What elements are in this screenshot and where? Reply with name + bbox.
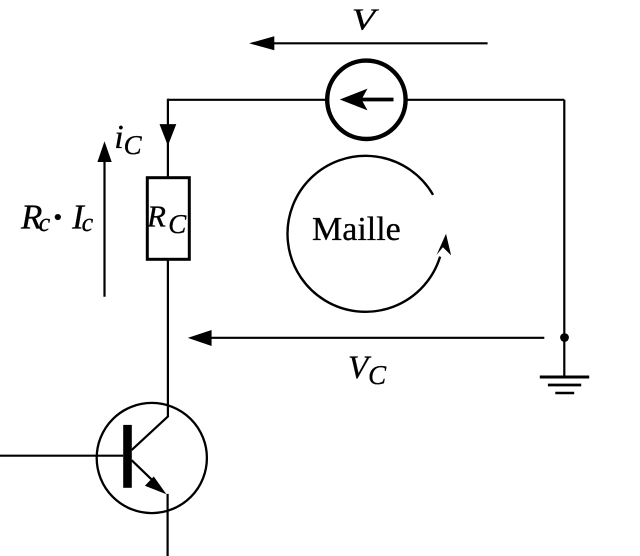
arrow V_C: [188, 330, 545, 346]
svg-text:Rc·Ic: Rc·Ic: [20, 189, 94, 245]
wire top horizontal: [168, 99, 564, 101]
arrow i_C (up arrow left of resistor): [97, 141, 111, 296]
collector diagonal: [132, 416, 169, 450]
svg-text:Maille: Maille: [312, 211, 401, 248]
ground: [540, 377, 589, 393]
base wire: [0, 455, 123, 457]
Maille loop arrow: [288, 156, 452, 312]
transistor body circle: [97, 403, 207, 513]
base bar: [123, 425, 132, 488]
resistor R_C: [146, 178, 189, 260]
wire left vertical (top, into resistor): [167, 99, 169, 178]
emitter wire: [167, 494, 169, 556]
svg-text:V: V: [352, 2, 379, 37]
current source (circle with left arrow): [327, 61, 405, 139]
emitter diagonal with arrowhead: [132, 460, 160, 487]
wire right vertical: [563, 100, 565, 377]
transistor Q1: [0, 403, 207, 556]
wire resistor to transistor collector: [167, 259, 169, 416]
node junction dot: [560, 333, 569, 342]
arrow V (top): [249, 36, 488, 50]
current direction arrowhead on left wire: [160, 124, 177, 146]
